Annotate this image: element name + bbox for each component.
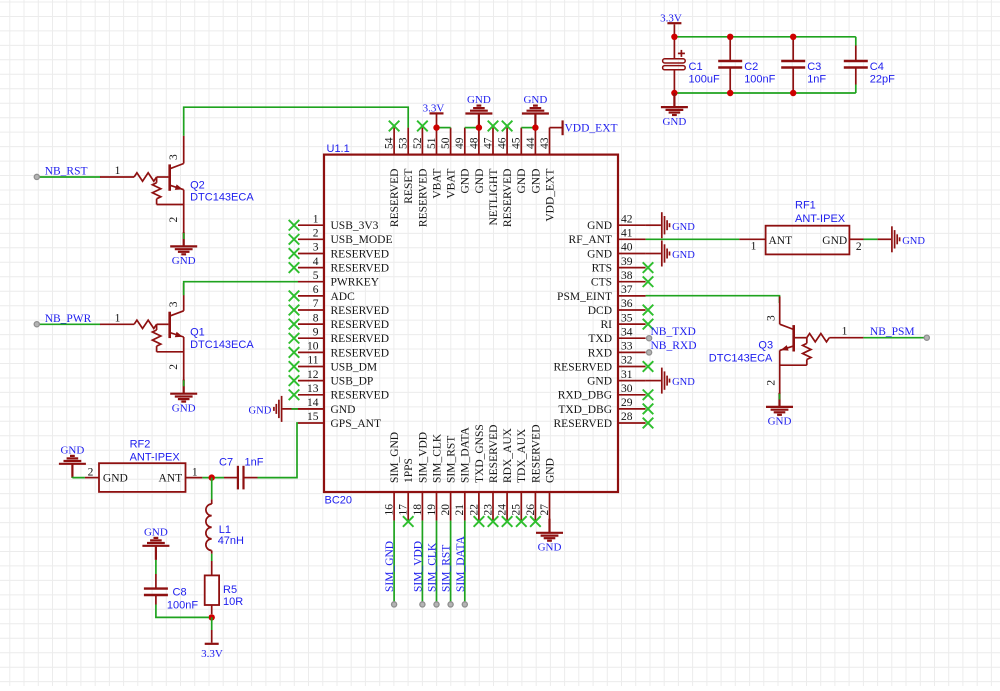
svg-text:GND: GND <box>331 404 356 416</box>
resistor R5 (10R) <box>205 561 244 614</box>
svg-text:RESERVED: RESERVED <box>331 347 390 359</box>
pin 42 (GND) right <box>587 213 646 232</box>
wire NB_PSM <box>863 337 926 339</box>
svg-text:SIM_VDD: SIM_VDD <box>417 432 429 483</box>
pin 45 (GND) top <box>511 128 529 194</box>
svg-text:7: 7 <box>313 298 319 310</box>
svg-text:1nF: 1nF <box>245 456 264 468</box>
transistor Q3 DTC143ECA <box>709 296 864 393</box>
svg-text:100nF: 100nF <box>167 599 198 611</box>
unconnected end pin 33 <box>647 350 652 355</box>
svg-text:Q3: Q3 <box>758 340 773 352</box>
svg-text:GND: GND <box>474 169 486 194</box>
pin 35 (RI) right <box>601 312 654 331</box>
pin 1 (USB_3V3) left <box>289 213 379 232</box>
svg-text:ANT-IPEX: ANT-IPEX <box>130 451 181 463</box>
svg-text:54: 54 <box>384 137 396 149</box>
svg-text:9: 9 <box>313 326 319 338</box>
pin 23 (RESERVED) bottom <box>482 424 500 526</box>
wire Q1 emitter to ground <box>183 380 185 386</box>
svg-text:SIM_CLK: SIM_CLK <box>427 542 439 592</box>
capacitor C7 (1nF) <box>219 456 264 489</box>
svg-text:RESERVED: RESERVED <box>331 319 390 331</box>
ground flag (pins 48/47... GND top left) <box>465 106 492 128</box>
svg-text:1PPS: 1PPS <box>403 458 415 483</box>
pin 30 (RXD_DBG) right <box>558 383 654 402</box>
svg-text:17: 17 <box>398 504 410 516</box>
pin 9 (RESERVED) left <box>289 326 389 345</box>
svg-text:GND: GND <box>103 473 128 485</box>
ground flag pin 40 <box>646 253 661 255</box>
svg-text:2: 2 <box>168 364 180 370</box>
pin 47 (NETLIGHT) top <box>482 121 500 226</box>
ground flag C8 <box>142 538 169 560</box>
pin 21 (SIM_DATA) bottom <box>454 426 472 520</box>
svg-text:GND: GND <box>902 236 925 247</box>
connector RF1 ANT-IPEX <box>739 199 863 254</box>
svg-text:52: 52 <box>412 137 424 149</box>
wire C8 to ground flag <box>155 560 157 574</box>
IC U1.1 BC20 body <box>324 155 618 492</box>
wire pin45 to pin44 GND jumper <box>521 127 535 129</box>
svg-text:2: 2 <box>856 241 862 253</box>
svg-text:12: 12 <box>307 369 319 381</box>
pin 37 (PSM_EINT) right <box>557 284 646 303</box>
wire SIM_RST (pin 20) <box>450 521 452 605</box>
wire junction to 3.3V <box>211 617 213 630</box>
svg-text:SIM_RST: SIM_RST <box>441 545 453 592</box>
unconnected end pin 34 <box>647 336 652 341</box>
svg-text:TXD_DBG: TXD_DBG <box>558 404 612 416</box>
svg-text:3: 3 <box>313 242 319 254</box>
svg-text:DTC143ECA: DTC143ECA <box>190 192 254 204</box>
svg-text:GND: GND <box>672 250 695 261</box>
svg-text:RF_ANT: RF_ANT <box>569 234 612 246</box>
svg-text:RI: RI <box>601 319 613 331</box>
svg-text:GND: GND <box>523 94 547 106</box>
pin 19 (SIM_CLK) bottom <box>426 433 444 520</box>
svg-text:C7: C7 <box>219 456 233 468</box>
svg-text:ANT-IPEX: ANT-IPEX <box>795 213 846 225</box>
svg-text:C2: C2 <box>744 61 758 73</box>
svg-text:1: 1 <box>115 165 121 177</box>
ground flag RF2 <box>59 456 86 478</box>
svg-text:22: 22 <box>468 504 480 516</box>
pin 51 (VBAT) top <box>426 128 444 199</box>
svg-text:26: 26 <box>525 504 537 516</box>
svg-text:32: 32 <box>621 355 633 367</box>
svg-text:C4: C4 <box>870 61 884 73</box>
svg-text:24: 24 <box>497 504 509 516</box>
pin 46 (RESERVED) top <box>497 121 515 227</box>
svg-text:VDD_EXT: VDD_EXT <box>565 123 618 135</box>
svg-text:33: 33 <box>621 341 633 353</box>
pin 32 (RESERVED) right <box>554 355 654 374</box>
power flag 3.3V (bottom) <box>211 630 213 643</box>
wire RF2 ground <box>72 477 85 479</box>
svg-text:1nF: 1nF <box>807 73 826 85</box>
svg-text:Q2: Q2 <box>190 179 205 191</box>
svg-text:51: 51 <box>426 137 438 149</box>
transistor Q2 DTC143ECA <box>100 136 254 233</box>
svg-text:3.3V: 3.3V <box>201 648 223 660</box>
svg-text:5: 5 <box>313 270 319 282</box>
capacitor C1 (100uF, polarized) <box>673 37 675 59</box>
svg-text:16: 16 <box>384 504 396 516</box>
wire Q2 collector to pin 53 RESET <box>184 107 409 136</box>
svg-text:ADC: ADC <box>331 291 356 303</box>
svg-text:RESERVED: RESERVED <box>331 305 390 317</box>
pin 27 (GND) bottom <box>539 458 557 521</box>
svg-text:RXD_DBG: RXD_DBG <box>558 390 612 402</box>
junction pin 48 <box>476 124 482 130</box>
svg-text:NB_PSM: NB_PSM <box>870 326 915 338</box>
svg-text:18: 18 <box>412 504 424 516</box>
svg-text:GND: GND <box>672 222 695 233</box>
svg-text:GND: GND <box>144 527 168 539</box>
pin 7 (RESERVED) left <box>289 298 389 317</box>
pin 41 (RF_ANT) right <box>569 228 646 247</box>
wire RF2 ANT to junction <box>202 477 224 479</box>
svg-text:100nF: 100nF <box>744 73 775 85</box>
pin 12 (USB_DP) left <box>289 369 374 388</box>
svg-text:GND: GND <box>587 376 612 388</box>
svg-text:RESERVED: RESERVED <box>554 361 613 373</box>
pin 10 (RESERVED) left <box>289 341 389 360</box>
wire SIM_CLK (pin 19) <box>436 521 438 605</box>
pin 44 (GND) top <box>525 128 543 194</box>
svg-text:15: 15 <box>307 411 319 423</box>
svg-text:C3: C3 <box>807 61 821 73</box>
ground flag pin 31 <box>646 380 661 382</box>
unconnected end SIM_VDD <box>420 602 425 607</box>
svg-text:RESERVED: RESERVED <box>502 169 514 228</box>
svg-text:GND: GND <box>516 169 528 194</box>
svg-text:VBAT: VBAT <box>446 169 458 199</box>
ground flag RF1 <box>878 238 891 240</box>
junction pin 51 <box>433 124 439 130</box>
pin 36 (DCD) right <box>588 298 654 317</box>
junction RF2/C7/L1 <box>209 474 215 480</box>
pin 34 (TXD) right <box>588 326 645 345</box>
svg-text:RESERVED: RESERVED <box>530 425 542 484</box>
svg-text:RESERVED: RESERVED <box>554 418 613 430</box>
svg-text:USB_DP: USB_DP <box>331 376 374 388</box>
svg-text:100uF: 100uF <box>689 73 720 85</box>
svg-text:19: 19 <box>426 504 438 516</box>
pin 52 (RESERVED) top <box>412 121 430 227</box>
svg-text:ANT: ANT <box>159 473 183 485</box>
wire RF1 pin2 to ground <box>864 238 878 240</box>
pin 29 (TXD_DBG) right <box>558 397 653 416</box>
svg-text:RESERVED: RESERVED <box>331 333 390 345</box>
svg-text:42: 42 <box>621 213 633 225</box>
svg-text:BC20: BC20 <box>325 495 353 507</box>
unconnected end NB_PWR <box>34 322 39 327</box>
net port VDD_EXT (pin 43) <box>550 127 563 129</box>
svg-text:8: 8 <box>313 312 319 324</box>
svg-text:SIM_RST: SIM_RST <box>446 436 458 483</box>
svg-text:TXD: TXD <box>588 333 612 345</box>
ground flag (capacitor bank) <box>661 93 688 115</box>
pin 33 (RXD) right <box>588 341 646 360</box>
svg-text:DTC143ECA: DTC143ECA <box>709 352 773 364</box>
wire C7 to pin 15 GPS_ANT <box>258 423 299 478</box>
svg-text:RESET: RESET <box>403 169 415 204</box>
svg-text:1: 1 <box>842 326 848 338</box>
wire bottom rail <box>674 92 855 94</box>
pin 17 (1PPS) bottom <box>398 458 416 527</box>
capacitor C4 (22pF) <box>855 46 857 62</box>
svg-text:TDX_AUX: TDX_AUX <box>516 428 528 483</box>
svg-text:SIM_GND: SIM_GND <box>389 432 401 483</box>
svg-text:ANT: ANT <box>769 235 793 247</box>
svg-text:RESERVED: RESERVED <box>389 169 401 228</box>
pin 15 (GPS_ANT) left <box>298 411 381 430</box>
unconnected end SIM_CLK <box>434 602 439 607</box>
connector RF2 ANT-IPEX <box>85 439 202 492</box>
pin 43 (VDD_EXT) top <box>539 128 557 222</box>
svg-text:45: 45 <box>511 137 523 149</box>
svg-text:NB_PWR: NB_PWR <box>45 313 92 325</box>
unconnected end SIM_DATA <box>462 602 467 607</box>
svg-text:36: 36 <box>621 298 633 310</box>
svg-text:3: 3 <box>766 315 778 321</box>
svg-text:28: 28 <box>621 411 633 423</box>
svg-text:SIM_VDD: SIM_VDD <box>412 541 424 592</box>
svg-text:RESERVED: RESERVED <box>417 169 429 228</box>
svg-text:NB_TXD: NB_TXD <box>651 326 696 338</box>
pin 28 (RESERVED) right <box>554 411 654 430</box>
svg-text:NB_RST: NB_RST <box>45 166 88 178</box>
svg-text:10: 10 <box>307 341 319 353</box>
svg-text:RESERVED: RESERVED <box>331 263 390 275</box>
unconnected end SIM_GND <box>392 602 397 607</box>
svg-text:GND: GND <box>822 235 847 247</box>
pin 49 (GND) top <box>454 128 472 194</box>
svg-text:USB_MODE: USB_MODE <box>331 234 393 246</box>
pin 25 (TDX_AUX) bottom <box>511 428 529 527</box>
transistor Q1 DTC143ECA <box>100 283 254 380</box>
svg-text:U1.1: U1.1 <box>327 143 350 155</box>
wire pin 14 ground <box>292 408 299 410</box>
svg-text:2: 2 <box>766 380 778 386</box>
wire Q1 collector to pin 5 PWRKEY <box>184 282 298 296</box>
svg-text:GND: GND <box>672 377 695 388</box>
svg-text:TXD_GNSS: TXD_GNSS <box>474 424 486 483</box>
wire Q2 emitter to ground <box>183 233 185 239</box>
svg-text:DTC143ECA: DTC143ECA <box>190 339 254 351</box>
svg-text:27: 27 <box>539 504 551 516</box>
pin 38 (CTS) right <box>591 270 653 289</box>
svg-text:SIM_GND: SIM_GND <box>384 541 396 592</box>
pin 22 (TXD_GNSS) bottom <box>468 424 486 527</box>
svg-text:1: 1 <box>751 240 757 252</box>
pin 13 (RESERVED) left <box>289 383 389 402</box>
wire pin 27 GND <box>549 521 551 533</box>
svg-text:4: 4 <box>313 256 319 268</box>
svg-text:GND: GND <box>530 169 542 194</box>
svg-text:53: 53 <box>398 137 410 149</box>
svg-text:48: 48 <box>468 137 480 149</box>
wire pin49 to pin48 GND jumper <box>465 127 479 129</box>
wire L1 to R5 <box>211 554 213 561</box>
inductor L1 (47nH) <box>206 478 244 554</box>
svg-text:RF1: RF1 <box>795 199 816 211</box>
svg-text:40: 40 <box>621 242 633 254</box>
ground flag Q3 <box>766 393 793 415</box>
svg-text:RTS: RTS <box>592 263 612 275</box>
junction pin 44 <box>532 124 538 130</box>
svg-text:C1: C1 <box>689 61 703 73</box>
svg-text:RF2: RF2 <box>130 439 151 451</box>
svg-text:31: 31 <box>621 369 633 381</box>
pin 5 (PWRKEY) left <box>298 270 380 289</box>
svg-text:1: 1 <box>192 466 198 478</box>
svg-text:C8: C8 <box>173 586 187 598</box>
ground flag pin 27 <box>536 519 563 541</box>
pin 18 (SIM_VDD) bottom <box>412 432 430 521</box>
svg-text:46: 46 <box>497 137 509 149</box>
pin 8 (RESERVED) left <box>289 312 389 331</box>
wire SIM_DATA (pin 21) <box>464 521 466 605</box>
wire top rail <box>674 36 855 38</box>
ground flag (pins 45/44 GND top right) <box>522 106 549 128</box>
svg-text:SIM_DATA: SIM_DATA <box>460 426 472 483</box>
unconnected end SIM_RST <box>448 602 453 607</box>
svg-text:GND: GND <box>460 169 472 194</box>
svg-text:50: 50 <box>440 137 452 149</box>
svg-text:49: 49 <box>454 137 466 149</box>
wire NB_PWR <box>39 323 100 325</box>
junction R5/C8/3.3V <box>209 614 215 620</box>
junction dots capacitor bank <box>671 34 677 40</box>
svg-text:44: 44 <box>525 137 537 149</box>
svg-text:L1: L1 <box>219 524 231 536</box>
pin 6 (ADC) left <box>289 284 355 303</box>
svg-text:NB_RXD: NB_RXD <box>651 340 697 352</box>
svg-text:21: 21 <box>454 504 466 516</box>
svg-text:2: 2 <box>168 217 180 223</box>
svg-text:GND: GND <box>587 248 612 260</box>
pin 24 (RDX_AUX) bottom <box>497 427 515 526</box>
pin 26 (RESERVED) bottom <box>525 425 543 527</box>
svg-text:GPS_ANT: GPS_ANT <box>331 418 381 430</box>
svg-text:41: 41 <box>621 228 633 240</box>
capacitor C2 (100nF) <box>729 38 731 61</box>
wire NB_RST <box>39 176 100 178</box>
svg-text:GND: GND <box>249 406 272 417</box>
pin 14 (GND) left <box>298 397 355 416</box>
ground flag Q1 <box>170 380 197 402</box>
svg-text:GND: GND <box>587 220 612 232</box>
pin 48 (GND) top <box>468 128 486 194</box>
svg-text:23: 23 <box>482 504 494 516</box>
svg-text:RESERVED: RESERVED <box>331 390 390 402</box>
svg-text:SIM_CLK: SIM_CLK <box>431 433 443 483</box>
wire SIM_VDD (pin 18) <box>421 521 423 605</box>
ground flag pin 42 <box>646 224 661 226</box>
svg-text:PSM_EINT: PSM_EINT <box>557 291 612 303</box>
svg-text:RESERVED: RESERVED <box>331 248 390 260</box>
pin 40 (GND) right <box>587 242 646 261</box>
svg-text:3: 3 <box>168 154 180 160</box>
svg-text:2: 2 <box>313 228 319 240</box>
wire SIM_GND (pin 16) <box>393 521 395 605</box>
svg-text:14: 14 <box>307 397 319 409</box>
svg-text:VDD_EXT: VDD_EXT <box>544 169 556 222</box>
svg-text:37: 37 <box>621 284 633 296</box>
svg-text:RXD: RXD <box>588 347 612 359</box>
svg-text:USB_DM: USB_DM <box>331 361 378 373</box>
svg-text:GND: GND <box>60 445 84 457</box>
unconnected end NB_PSM <box>924 335 929 340</box>
pin 54 (RESERVED) top <box>384 121 402 227</box>
svg-text:29: 29 <box>621 397 633 409</box>
pin 11 (USB_DM) left <box>289 355 377 374</box>
svg-text:2: 2 <box>88 466 94 478</box>
svg-text:USB_3V3: USB_3V3 <box>331 220 379 232</box>
svg-text:PWRKEY: PWRKEY <box>331 277 380 289</box>
svg-text:R5: R5 <box>223 584 237 596</box>
pin 4 (RESERVED) left <box>289 256 389 275</box>
svg-text:RDX_AUX: RDX_AUX <box>502 427 514 483</box>
svg-text:1: 1 <box>313 213 319 225</box>
svg-text:43: 43 <box>539 137 551 149</box>
wire pin 37 PSM_EINT to Q3 <box>646 296 780 303</box>
svg-text:GND: GND <box>172 255 196 267</box>
svg-text:GND: GND <box>544 458 556 483</box>
wire junction to C8 <box>156 605 209 618</box>
svg-text:25: 25 <box>511 504 523 516</box>
svg-text:47nH: 47nH <box>218 535 244 547</box>
pin 31 (GND) right <box>587 369 646 388</box>
wire Q3 emitter to ground <box>779 394 781 400</box>
svg-text:11: 11 <box>307 355 318 367</box>
svg-text:NETLIGHT: NETLIGHT <box>488 169 500 226</box>
svg-text:1: 1 <box>115 312 121 324</box>
svg-text:GND: GND <box>662 116 686 128</box>
pin 2 (USB_MODE) left <box>289 228 393 247</box>
svg-text:GND: GND <box>172 403 196 415</box>
svg-text:GND: GND <box>467 94 491 106</box>
wire pin51 to pin50 VBAT jumper <box>437 127 451 129</box>
wire pin 41 RF_ANT to RF1 <box>646 238 740 240</box>
pin 3 (RESERVED) left <box>289 242 389 261</box>
svg-text:34: 34 <box>621 326 633 338</box>
svg-text:GND: GND <box>538 542 562 554</box>
unconnected end NB_RST <box>34 174 39 179</box>
capacitor C8 (100nF) <box>144 574 198 611</box>
svg-text:35: 35 <box>621 312 633 324</box>
pin 53 (RESET) top <box>398 128 416 204</box>
svg-text:47: 47 <box>482 137 494 149</box>
pin 20 (SIM_RST) bottom <box>440 436 458 521</box>
pin 16 (SIM_GND) bottom <box>384 432 402 521</box>
capacitor C3 (1nF) <box>792 38 794 61</box>
ground flag pin 14 <box>283 408 325 410</box>
svg-text:10R: 10R <box>223 596 243 608</box>
svg-text:38: 38 <box>621 270 633 282</box>
svg-text:Q1: Q1 <box>190 327 205 339</box>
svg-text:VBAT: VBAT <box>431 169 443 199</box>
svg-text:SIM_DATA: SIM_DATA <box>455 535 467 592</box>
svg-text:30: 30 <box>621 383 633 395</box>
svg-text:3: 3 <box>168 301 180 307</box>
pin 50 (VBAT) top <box>440 128 458 199</box>
ground flag Q2 <box>170 232 197 254</box>
svg-text:6: 6 <box>313 284 319 296</box>
